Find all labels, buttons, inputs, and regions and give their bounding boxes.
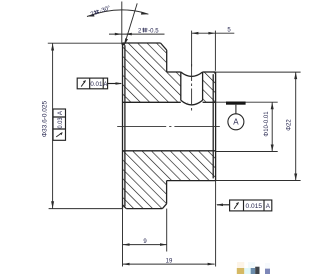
arrow dim19 left [123, 263, 130, 266]
FCF left (runout 0.03 A, rotated) [53, 109, 66, 140]
bore top line right of hole [203, 101, 216, 103]
svg-text:A: A [233, 118, 239, 127]
right cylinder top surface right of hole [203, 71, 216, 73]
svg-text:Φ33.6-0.025: Φ33.6-0.025 [42, 100, 49, 137]
runout symbol top [81, 80, 85, 86]
section hatch lower body [123, 151, 216, 209]
svg-text:19: 19 [166, 259, 173, 265]
arrow phi10 top [271, 102, 274, 109]
ext line: flange top extended left [48, 42, 123, 44]
svg-text:Φ10-0.01: Φ10-0.01 [264, 111, 270, 137]
arrow dim9 right [160, 243, 167, 246]
arrow phi22 bottom [294, 174, 297, 181]
centerlines [117, 64, 220, 126]
ext line: flange bottom extended left [49, 208, 123, 210]
svg-text:9: 9 [143, 239, 147, 245]
section hatch upper right lip [203, 72, 216, 102]
watermark squares bottom right [237, 262, 270, 274]
right cylinder bottom surface [167, 180, 216, 182]
svg-text:-0.5: -0.5 [148, 29, 159, 35]
arrow phi10 bottom [271, 145, 274, 152]
left face chamfer line [124, 45, 126, 206]
arrowheads [51, 12, 297, 266]
arrow phi33.6 bottom [51, 201, 54, 208]
svg-text:-30°: -30° [99, 5, 112, 14]
ext line: vertical above top-left corner (angular dim) [121, 2, 123, 45]
arrow arc left end [87, 14, 95, 17]
radial hole left wall [180, 72, 182, 100]
right face outer line [215, 72, 217, 181]
right face chamfer line [212, 74, 214, 178]
flange top-left chamfer [123, 43, 125, 45]
datum A circle [228, 114, 244, 130]
dimension graphics [48, 2, 301, 267]
ext line: left face down [122, 209, 124, 267]
arrow 30deg slant tip at corner [124, 38, 128, 45]
bore top line left of hole [123, 101, 181, 103]
ext line: hole axis up to dim 5 [191, 31, 193, 67]
CJK char glyph (30 note) [93, 9, 99, 15]
flange top edge [123, 42, 161, 44]
datum A target bar [226, 102, 246, 105]
flange bottom-left chamfer [123, 205, 127, 209]
svg-text:0.03: 0.03 [57, 117, 64, 128]
arrow dim9 left [123, 243, 130, 246]
ext line: phi22 bottom [216, 180, 301, 182]
ext line: phi10 top right [216, 101, 278, 103]
svg-text:Φ22: Φ22 [287, 119, 293, 131]
section hatch upper flange + left lip [123, 43, 203, 103]
flange right face upper [166, 50, 168, 72]
svg-text:0.015: 0.015 [246, 203, 263, 210]
dim line 19 [123, 263, 215, 265]
ext line: right face up to dim 5 [214, 31, 216, 71]
ext line: step down [166, 209, 168, 252]
FCF top (runout 0.01 A) [77, 78, 121, 89]
arrow dim5 right [208, 32, 215, 35]
radial hole centerline [191, 64, 193, 111]
FCF bottom right (runout 0.015 A) [217, 200, 272, 211]
svg-text:0.01: 0.01 [90, 81, 102, 88]
arrow phi22 top [294, 72, 297, 79]
ext line: phi22 top [216, 71, 301, 73]
arrow chamfer dim right (tip at 124.8) [125, 33, 132, 36]
radial hole breakthrough arc [181, 100, 203, 105]
bore bottom line [123, 150, 216, 152]
flange bottom edge [126, 208, 162, 210]
flange top-right chamfer [161, 43, 167, 50]
left face outer line [122, 43, 124, 209]
runout symbol bottom [234, 202, 238, 208]
radial hole entry curve [181, 72, 203, 76]
leader to right face ext [217, 204, 230, 206]
arrow dim5 left [191, 32, 198, 35]
chamfer note line 2x-0.5 [109, 33, 165, 35]
runout symbol left [56, 133, 62, 137]
dim line phi10 [271, 102, 273, 151]
arrow arc right end [141, 12, 149, 15]
svg-text:2: 2 [138, 29, 142, 35]
angular dim arc [87, 10, 148, 17]
dim line phi33.6 [52, 43, 54, 208]
arrow dim19 right [208, 263, 215, 266]
chamfer slant line 30deg [124, 3, 137, 45]
ext line: phi10 bottom right [216, 151, 278, 153]
flange right face lower [166, 181, 168, 204]
arrow phi33.6 top [51, 43, 54, 50]
dim line 5 (top right) [191, 32, 234, 34]
leader to left face [108, 83, 121, 85]
arrow chamfer dim left (tip at 121.8) [115, 33, 122, 36]
main axis centerline [117, 125, 220, 127]
right cylinder top surface left of hole [167, 71, 181, 73]
text: 2x-30 deg angular note [90, 5, 112, 18]
datum A stem [235, 105, 237, 114]
ext line: right face down [215, 181, 217, 267]
dim line phi22 [295, 72, 297, 180]
flange bottom-right chamfer [162, 204, 166, 209]
CJK char glyph (0.5 note) [142, 28, 147, 33]
part outline [123, 43, 216, 209]
radial hole right wall [202, 72, 204, 100]
dim line 9 [123, 244, 168, 246]
